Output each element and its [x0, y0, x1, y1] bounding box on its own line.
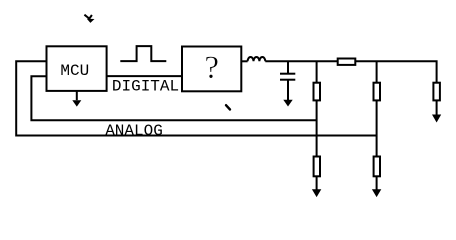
svg-text:MCU: MCU	[60, 62, 89, 80]
svg-text:?: ?	[204, 50, 219, 86]
svg-text:DIGITAL: DIGITAL	[112, 78, 179, 96]
svg-text:ANALOG: ANALOG	[105, 122, 163, 140]
